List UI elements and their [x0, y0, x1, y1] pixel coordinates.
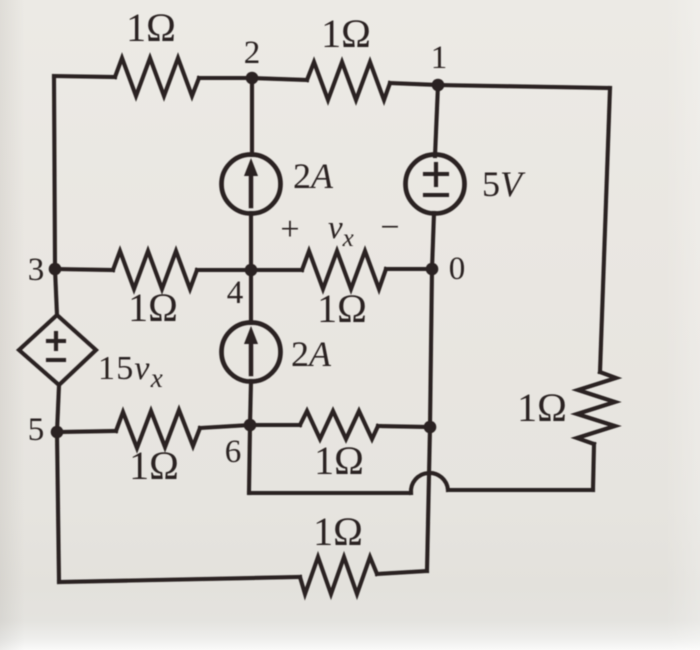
wire R1 to node 2: [199, 76, 252, 80]
svg-text:1Ω: 1Ω: [317, 286, 367, 331]
resistor R8 1ohm bottom: [300, 557, 377, 594]
wire horizontal left of hop to node 6 leg: [249, 491, 411, 495]
node 0 junction dot: [426, 263, 439, 276]
node 4 junction dot: [245, 264, 258, 277]
arrow of current source I2: [244, 326, 258, 374]
wire V1 to node 0: [432, 213, 434, 269]
svg-text:1: 1: [431, 40, 448, 76]
svg-text:4: 4: [227, 275, 244, 311]
junction dot right end of bottom row: [424, 421, 437, 434]
wire right edge vertical: [600, 88, 610, 372]
wire node 3 to diamond top: [55, 269, 57, 315]
svg-text:2A: 2A: [293, 156, 334, 196]
svg-text:1Ω: 1Ω: [128, 285, 178, 330]
svg-text:1Ω: 1Ω: [517, 385, 567, 430]
wire I1 to node 4: [249, 213, 253, 270]
node 3 junction dot: [49, 263, 62, 276]
resistor R7 1ohm right vertical: [577, 372, 616, 444]
svg-text:2A: 2A: [291, 334, 332, 374]
plus sign inside V1: [425, 164, 447, 185]
arrow of current source I1: [244, 158, 258, 206]
node 1 junction dot: [432, 79, 445, 92]
resistor R6 1ohm bottom-right row: [300, 411, 378, 439]
svg-text:3: 3: [28, 252, 45, 288]
current source I2 2A circle: [222, 323, 281, 382]
resistor R2 1ohm top-right: [307, 62, 390, 100]
wire R2 to node 1: [390, 83, 438, 85]
wire node 2 down to I1: [250, 78, 254, 155]
wire horizontal right of hop: [448, 488, 593, 492]
svg-text:1Ω: 1Ω: [313, 509, 363, 554]
wire R6 to right node: [378, 426, 430, 427]
svg-text:5V: 5V: [482, 164, 526, 204]
svg-text:1Ω: 1Ω: [126, 5, 176, 50]
svg-text:15vx: 15vx: [98, 350, 164, 393]
current source I1 2A circle: [222, 155, 281, 214]
wire I2 to node 6: [250, 381, 251, 425]
minus sign inside V1: [425, 193, 447, 197]
voltage source V1 5V circle: [406, 155, 465, 214]
node 6 junction dot: [244, 419, 257, 432]
wire left edge vertical lower: [57, 432, 59, 582]
wire vertical node 0 down to bottom loop: [427, 269, 432, 571]
svg-text:vx: vx: [328, 210, 354, 252]
svg-text:6: 6: [225, 434, 242, 470]
wire bottom loop right segment: [377, 571, 427, 574]
node 5 junction dot: [51, 426, 64, 439]
resistor R1 1ohm top-left: [115, 58, 199, 96]
wire bottom loop left segment: [59, 577, 300, 582]
wire node 2 to R2: [252, 78, 307, 80]
svg-text:1Ω: 1Ω: [129, 443, 179, 488]
wire node 1 to top-right corner: [438, 85, 610, 88]
svg-text:5: 5: [28, 412, 45, 448]
dependent source E1 15vx diamond: [19, 315, 96, 385]
resistor R3 1ohm middle-left: [113, 251, 197, 289]
wire hop over vertical: [411, 473, 448, 493]
wire node 6 down leg: [249, 425, 250, 493]
minus sign inside diamond: [48, 358, 64, 362]
wire R3 to node 4: [197, 268, 251, 272]
wire node 5 to R5: [57, 431, 116, 432]
svg-text:1Ω: 1Ω: [314, 438, 364, 483]
wire node 4 down to I2: [249, 270, 253, 323]
resistor R5 1ohm bottom-left row: [116, 410, 200, 448]
wire top-left corner to R1: [54, 76, 115, 77]
svg-text:−: −: [380, 209, 399, 246]
wire node 4 to Rvx: [251, 268, 302, 272]
resistor Rvx 1ohm middle-right: [302, 251, 386, 289]
svg-text:1Ω: 1Ω: [321, 11, 371, 56]
wire Rvx to node 0: [386, 267, 432, 271]
svg-text:2: 2: [244, 35, 261, 71]
plus sign inside diamond: [48, 333, 64, 349]
wire right resistor to bottom lead: [593, 444, 594, 490]
svg-text:0: 0: [449, 251, 466, 287]
wire node 3 to R3: [55, 269, 113, 270]
wire left edge vertical upper: [54, 76, 55, 269]
wire node 1 down to V1: [435, 85, 438, 156]
node 2 junction dot: [246, 72, 259, 85]
wire R5 to node 6: [200, 425, 250, 428]
wire node 6 to R6: [250, 423, 300, 427]
svg-text:+: +: [280, 211, 299, 248]
wire diamond bottom to node 5: [57, 385, 59, 432]
